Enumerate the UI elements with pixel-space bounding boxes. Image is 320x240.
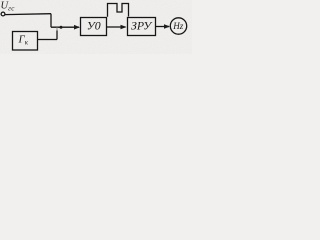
background [0, 0, 192, 54]
terminal input [1, 12, 5, 16]
wire vertical down from corner [50, 14, 52, 28]
wire horizontal into UO [51, 26, 79, 28]
wire Gk to vertical [37, 39, 57, 41]
wire vertical Gk upper faded segment [56, 27, 58, 30]
svg-text:У0: У0 [87, 19, 101, 33]
wire UO to ZRU [106, 26, 126, 28]
wire vertical Gk up to junction [56, 31, 58, 40]
svg-text:ЗРУ: ЗРУ [131, 19, 153, 33]
junction node [60, 26, 63, 29]
svg-text:Hz: Hz [172, 21, 183, 31]
arrowhead into Hz [164, 24, 170, 29]
wire ZRU to Hz meter [155, 26, 169, 28]
arrowhead into ZRU [121, 25, 127, 30]
waveform pulse symbol [108, 4, 129, 17]
block Gk [13, 32, 38, 51]
arrowhead into UO [74, 25, 80, 30]
wire from terminal to corner [5, 13, 51, 16]
Hz meter circle [170, 18, 186, 34]
block UO [81, 18, 107, 36]
block ZRU [128, 18, 156, 36]
